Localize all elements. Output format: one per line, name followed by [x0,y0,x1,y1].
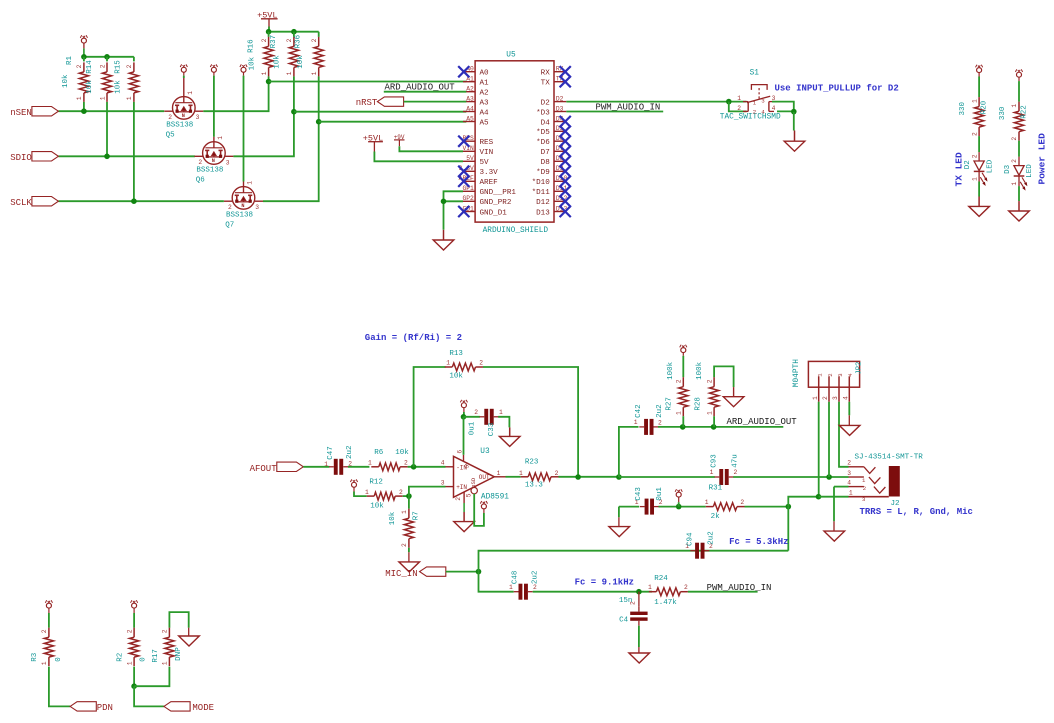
junction bias node [676,504,682,510]
svg-text:47u: 47u [732,454,740,468]
svg-text:PDN: PDN [97,703,113,713]
wire op-amp output to R23 [506,476,521,478]
svg-text:U3: U3 [480,448,490,456]
pin connector PDN [70,702,96,711]
junction C42 branch [616,474,622,480]
wire R12 to inverting node [403,495,409,497]
junction mic node [786,504,792,510]
pin U5 left VIN [463,150,475,152]
svg-text:2: 2 [99,64,106,68]
junction A5 branch [316,119,322,125]
ground below op-amp [463,512,465,522]
svg-text:10k: 10k [86,80,94,94]
svg-text:D3: D3 [556,105,564,112]
wire S1 pins 3-4 to ground [772,102,794,112]
svg-text:*D9: *D9 [536,169,550,177]
svg-text:0: 0 [55,657,63,662]
svg-text:C94: C94 [686,532,694,546]
svg-text:2: 2 [474,409,478,416]
svg-text:D4: D4 [541,119,551,127]
svg-text:10k: 10k [273,55,281,69]
wire AFOUT to C47 [303,466,329,468]
ground below D3 [1018,201,1020,211]
svg-text:R31: R31 [709,484,723,492]
no-connect X A0 [458,66,469,77]
svg-text:D2: D2 [556,95,564,102]
op-amp U3 AD8591 [446,455,506,503]
no-connect X D8 [560,156,571,167]
svg-text:R36: R36 [295,34,303,48]
wire mic junction down to C48 row [479,572,514,592]
no-connect X D5 [560,126,571,137]
pin U5 right *D11 [554,190,566,192]
connector JP2 M04PTH body [808,361,859,387]
wire mic junction up to C94 row [479,551,789,572]
svg-text:BSS138: BSS138 [196,167,223,175]
no-connect X D7 [560,146,571,157]
no-connect X D13 [560,206,571,217]
svg-text:1: 1 [41,661,48,665]
svg-text:2: 2 [1011,159,1018,163]
svg-text:3: 3 [196,114,200,121]
svg-text:R2: R2 [117,653,125,662]
svg-text:2: 2 [162,629,169,633]
svg-text:2: 2 [658,420,662,427]
pin U5 right RX [554,71,566,73]
svg-text:3: 3 [761,98,765,105]
svg-text:2: 2 [734,469,738,476]
pin connector MIC_IN [420,567,446,576]
svg-text:2: 2 [827,373,834,376]
wire D2 to switch S1 [566,101,746,103]
pin JP2 4 [848,376,850,402]
svg-text:1: 1 [324,461,328,468]
svg-text:SJ-43514-SMT-TR: SJ-43514-SMT-TR [855,453,924,461]
svg-text:2: 2 [676,379,683,383]
svg-text:2: 2 [228,204,232,211]
svg-text:1: 1 [519,470,523,477]
svg-text:OUT: OUT [479,474,490,481]
junction R16 top [266,29,272,35]
no-connect X 3.3V [458,166,469,177]
svg-text:2: 2 [479,360,483,367]
svg-text:2: 2 [404,459,408,466]
pin U5 left RES [463,140,475,142]
wire supply to R3 [48,613,50,628]
svg-text:R14: R14 [86,60,94,74]
supply +3V3 above Q5 gate [181,67,186,72]
svg-text:Q6: Q6 [196,177,206,185]
svg-text:2: 2 [399,489,403,496]
pin U5 right *D5 [554,130,566,132]
junction R16 bottom / A1 rail [266,79,272,85]
wire R23 to output node [559,476,619,478]
wire V+ node down to pin6 [463,417,465,455]
no-connect X D10 [560,176,571,187]
svg-text:100k: 100k [667,361,675,380]
svg-text:GND__PR1: GND__PR1 [480,189,517,197]
junction S1 pin4 [791,109,797,115]
wire Q7 drain to R36 column [263,76,319,201]
svg-text:3: 3 [441,479,445,486]
pin U5 right D12 [554,200,566,202]
svg-text:D12: D12 [536,199,550,207]
wire +5VL to rail [268,27,270,32]
svg-text:1: 1 [737,95,741,102]
svg-text:R15: R15 [115,60,123,74]
svg-text:Power LED: Power LED [1037,133,1048,185]
svg-text:AREF: AREF [480,179,499,187]
no-connect X GND_D1 [458,206,469,217]
pin connector MODE [164,702,190,711]
svg-text:2: 2 [261,38,268,42]
svg-text:10k: 10k [62,74,70,88]
svg-text:C4: C4 [619,616,629,624]
svg-text:D13: D13 [536,209,550,217]
pin connector AFOUT [277,462,304,471]
wire nSEN row [58,110,164,112]
pin U5 left GND_PR2 [463,200,475,202]
svg-text:R28: R28 [694,397,702,411]
svg-text:nSEN: nSEN [10,108,32,118]
svg-text:2k: 2k [711,513,721,521]
svg-text:3: 3 [832,396,839,400]
svg-text:C47: C47 [327,446,335,460]
svg-text:2: 2 [706,379,713,383]
svg-text:TRRS = L, R, Gnd, Mic: TRRS = L, R, Gnd, Mic [860,507,973,517]
junction R14 top [104,54,110,60]
wire V+ node to C33 [464,416,480,418]
wire nSD to supply [474,494,484,526]
svg-text:1: 1 [261,71,268,75]
svg-text:2u2: 2u2 [707,531,715,545]
pin U5 right D2 [554,101,566,103]
junction D2-S1 [726,99,732,105]
wire JP2 pin1 to mic row [818,402,820,497]
svg-text:2u2: 2u2 [656,404,664,418]
jack J2 SJ-43514-SMT-TR [849,466,900,497]
resistor R24 1.47k [649,591,657,593]
svg-text:Fc = 9.1kHz: Fc = 9.1kHz [575,577,634,587]
wire Q5 drain to R16 bottom [203,82,268,112]
svg-text:10k: 10k [115,80,123,94]
svg-text:2: 2 [198,159,202,166]
pin U5 left A4 [463,111,475,113]
junction R15-SCLK [131,198,137,204]
svg-text:330: 330 [999,106,1007,120]
transistor Q5 BSS138 [164,78,203,119]
wire C43 to bias node [659,506,706,508]
svg-text:A0: A0 [480,70,490,78]
svg-text:A2: A2 [466,86,474,93]
pin U5 right *D9 [554,170,566,172]
svg-text:1: 1 [812,396,819,400]
svg-text:GND_D1: GND_D1 [480,209,508,217]
svg-text:4: 4 [772,105,776,112]
svg-text:3: 3 [226,159,230,166]
svg-text:RX: RX [541,70,551,78]
wire C43 left to ground [618,507,620,518]
wire A2 ARD_AUDIO_OUT stub [384,91,467,93]
svg-text:R6: R6 [374,449,384,457]
wire jack pin4 to ground [834,486,849,488]
svg-text:1: 1 [217,136,224,140]
pin JP2 1 [818,376,820,402]
svg-text:1: 1 [705,499,709,506]
svg-text:2: 2 [822,396,829,400]
svg-text:1: 1 [286,71,293,75]
svg-text:2: 2 [286,38,293,42]
svg-text:R27: R27 [665,397,673,411]
wire A1 rail to Arduino A1 [269,81,467,83]
svg-text:U5: U5 [506,52,516,60]
junction GND_PR2 [441,199,447,205]
no-connect X TX [560,76,571,87]
wire supply to R20 [978,77,980,98]
pin U5 left A3 [463,101,475,103]
pin U5 left A2 [463,91,475,93]
svg-text:1: 1 [446,360,450,367]
svg-text:*D6: *D6 [536,139,550,147]
wire C43 left corner [619,506,639,508]
wire R2/R17 to MODE [133,667,135,687]
resistor R16 10k [268,32,270,37]
wire MIC_IN to mic junction [446,571,479,573]
svg-text:10k: 10k [395,449,409,457]
wire supply to R22 [1018,81,1020,102]
pin JP2 2 [828,376,830,402]
svg-text:ARDUINO_SHIELD: ARDUINO_SHIELD [483,227,549,235]
pin U5 left AREF [463,180,475,182]
svg-text:1: 1 [311,71,318,75]
wire C47 to R6 [348,466,369,468]
svg-text:2: 2 [555,470,559,477]
svg-text:Q7: Q7 [225,221,234,229]
LED D3 [1018,157,1020,166]
svg-text:1: 1 [368,459,372,466]
wire A5 branch to Arduino A5 [319,121,467,123]
svg-text:2: 2 [126,629,133,633]
svg-text:0u1: 0u1 [469,421,477,435]
svg-text:10k: 10k [389,511,397,525]
svg-text:nSD: nSD [470,477,477,488]
svg-text:R17: R17 [152,649,160,663]
svg-text:MODE: MODE [192,703,214,713]
svg-text:10k: 10k [370,503,384,511]
svg-text:3: 3 [255,204,259,211]
svg-text:D3: D3 [1004,164,1012,174]
svg-text:1: 1 [971,99,978,103]
pin U5 right TX [554,81,566,83]
svg-text:5V: 5V [480,159,490,167]
svg-text:A5: A5 [466,115,474,122]
svg-text:BSS138: BSS138 [226,211,253,219]
svg-text:2: 2 [41,629,48,633]
wire SCLK row [58,200,224,202]
wire 5V rail R16-R37-R36 [269,31,319,33]
svg-text:1: 1 [187,91,194,95]
wire output node up to C42 row [619,427,639,477]
svg-text:TX: TX [541,80,551,88]
junction A4 branch [291,109,297,115]
svg-text:10k: 10k [248,56,256,70]
wire R31 to mic node [745,506,789,508]
pin U5 left A1 [463,81,475,83]
svg-text:0: 0 [140,657,148,662]
junction R1-nSEN [81,108,87,114]
ground below C4 [629,653,650,663]
wire nRST to A3 [404,101,467,103]
no-connect X D4 [560,116,571,127]
wire supply to R27 [682,356,684,377]
supply above R3 [46,603,51,608]
svg-text:R1: R1 [66,55,74,65]
junction C4 node [636,589,642,595]
resistor R20 330 [978,97,980,107]
wire op-amp pin2 to ground [463,503,465,512]
resistor R28 100k [713,377,715,387]
svg-text:D7: D7 [541,149,550,157]
svg-text:2: 2 [168,114,172,121]
svg-text:DNP: DNP [175,647,183,661]
wire 3V3 rail R1-R14-R15 [84,56,134,58]
wire inverting node down to R7 [408,496,410,509]
svg-text:AD8591: AD8591 [481,494,509,502]
svg-text:1: 1 [126,661,133,665]
svg-text:*D5: *D5 [536,129,550,137]
svg-text:Gain = (Rf/Ri) = 2: Gain = (Rf/Ri) = 2 [365,333,462,343]
wire JP2 pin2 to audio row [828,402,830,477]
svg-text:Fc = 5.3kHz: Fc = 5.3kHz [729,537,788,547]
svg-text:A1: A1 [480,80,490,88]
junction feedback tap [575,474,581,480]
wire Q6 drain to R37 column [233,76,294,156]
resistor R27 100k [682,377,684,387]
svg-text:1: 1 [162,661,169,665]
svg-text:BSS138: BSS138 [166,121,193,129]
wire mic node up to jack row [788,497,818,507]
svg-text:JP2: JP2 [855,362,863,375]
svg-text:1: 1 [634,419,638,426]
svg-text:ARD_AUDIO_OUT: ARD_AUDIO_OUT [727,417,798,427]
svg-text:2: 2 [971,132,978,136]
pin connector SCLK [32,197,59,206]
svg-text:TX LED: TX LED [954,152,965,187]
ground below R7 [399,562,420,572]
svg-text:A5: A5 [480,119,490,127]
svg-text:R24: R24 [654,575,668,583]
svg-text:1: 1 [76,96,83,100]
svg-text:1: 1 [706,411,713,415]
wire C42 to ARD_AUDIO_OUT net [658,426,783,428]
svg-text:N: N [182,113,185,119]
svg-text:100k: 100k [696,361,704,380]
no-connect X D11 [560,186,571,197]
svg-text:R7: R7 [413,511,421,520]
svg-text:2: 2 [740,499,744,506]
LED D2 [978,152,980,161]
junction MIC_IN node [476,569,482,575]
resistor R14 10k [106,57,108,62]
svg-text:R12: R12 [369,478,383,486]
wire +5VL to 5V pin [374,152,463,162]
pin U5 right *D10 [554,180,566,182]
supply at nSD [481,504,486,509]
svg-text:10k: 10k [297,55,305,69]
svg-text:0u1: 0u1 [656,487,664,501]
svg-text:13.3: 13.3 [525,482,544,490]
wire mic node down to C94 row [787,507,789,551]
svg-text:Use INPUT_PULLUP for D2: Use INPUT_PULLUP for D2 [775,83,899,93]
wire R3 to PDN [49,667,70,707]
svg-text:Q5: Q5 [166,131,176,139]
pin connector nSEN [32,107,59,116]
pin connector SDIO [32,152,59,161]
junction R14-SDIO [104,154,110,160]
ground right of C33 [509,427,511,436]
no-connect X D12 [560,196,571,207]
no-connect X RX [560,66,571,77]
svg-text:R16: R16 [247,39,255,53]
svg-text:R3: R3 [31,652,39,662]
svg-text:2: 2 [126,64,133,68]
wire R20 to LED D2 [978,136,980,152]
svg-text:1.47k: 1.47k [654,599,677,607]
svg-text:1: 1 [753,99,757,106]
resistor R22 330 [1018,102,1020,112]
junction inverting node [406,493,412,499]
svg-text:2: 2 [847,460,851,467]
svg-text:C43: C43 [635,487,643,501]
pin U5 right D4 [554,121,566,123]
wire C48 to C4 node [533,591,652,593]
svg-text:*D11: *D11 [532,189,551,197]
wire GND_PR1/GND_PR2 to ground [444,191,464,230]
svg-text:A3: A3 [466,95,474,102]
pin U5 right *D3 [554,111,566,113]
wire R7 to ground [408,548,410,553]
svg-text:1: 1 [126,96,133,100]
supply +3V3 above R1 [81,38,86,43]
svg-text:2: 2 [753,109,757,116]
wire C93 to jack pin3 [733,476,848,478]
svg-text:2: 2 [737,105,741,112]
svg-text:1: 1 [365,489,369,496]
svg-text:C33: C33 [488,422,496,436]
svg-text:nRST: nRST [356,98,378,108]
no-connect X RES [458,136,469,147]
no-connect X AREF [458,176,469,187]
svg-text:SCLK: SCLK [10,198,32,208]
no-connect X D6 [560,136,571,147]
pin U5 left GND__PR1 [463,190,475,192]
svg-text:2: 2 [684,584,688,591]
svg-text:4: 4 [843,396,850,400]
svg-text:2: 2 [971,154,978,158]
capacitor C33 0u1 [484,409,488,425]
capacitor C43 0u1 [645,499,649,515]
junction feedback node [411,464,417,470]
svg-text:2: 2 [1011,137,1018,141]
junction R1 top [81,54,87,60]
svg-text:2u2: 2u2 [531,571,539,585]
svg-text:C93: C93 [711,454,719,468]
junction R37 top [291,29,297,35]
svg-text:M04PTH: M04PTH [793,359,801,387]
junction V+ node [461,414,467,420]
ground below jack [824,531,845,541]
svg-text:LED: LED [986,159,994,173]
